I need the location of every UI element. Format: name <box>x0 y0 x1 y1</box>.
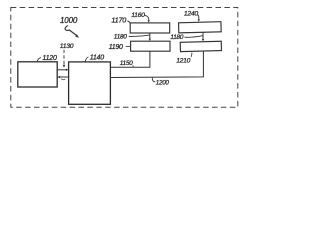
block 1170 (upper left of array) <box>130 23 170 33</box>
leader tick for 1150 <box>132 65 134 67</box>
svg-text:1210: 1210 <box>176 57 190 64</box>
svg-text:1120: 1120 <box>42 55 57 62</box>
leader for 1140 <box>85 57 88 62</box>
stray arc mark <box>61 78 66 81</box>
block 1190 (lower left of array) <box>131 41 170 51</box>
svg-text:1180: 1180 <box>114 34 128 41</box>
wire 1200 from lower-right block to 1140 <box>111 51 204 78</box>
leader for 1170 <box>127 21 130 23</box>
block 1140 <box>69 62 111 104</box>
arrow 1140 to 1120 <box>60 76 69 78</box>
svg-text:1200: 1200 <box>156 80 170 87</box>
dashed leader arrow for 1130 <box>63 50 65 65</box>
arrow 1120 to 1140 <box>57 69 66 71</box>
svg-text:1190: 1190 <box>109 44 123 51</box>
svg-text:1160: 1160 <box>131 12 145 19</box>
svg-text:1130: 1130 <box>60 43 74 50</box>
svg-text:1150: 1150 <box>120 60 133 67</box>
leader for right 1180 <box>184 36 202 38</box>
wire 1150 from lower-left block to 1140 <box>111 51 150 67</box>
svg-text:1170: 1170 <box>111 16 126 25</box>
block 1200 (lower right of array) <box>180 41 221 51</box>
svg-text:1000: 1000 <box>60 16 78 25</box>
dashed enclosure border 1100 <box>11 8 238 108</box>
arrow upper-right block to lower-right block <box>202 32 204 39</box>
leader for left 1180 <box>129 35 150 37</box>
leader arrow 1240 into upper-right block <box>197 15 199 17</box>
leader tick for 1210 <box>190 53 193 57</box>
leader for 1120 <box>37 58 41 62</box>
svg-text:1140: 1140 <box>90 54 105 61</box>
leader for 1190 <box>126 45 131 47</box>
leader hook for 1200 <box>152 78 155 82</box>
block 1240 (upper right of array) <box>179 22 222 33</box>
arrow upper-left block to lower-left block <box>149 33 151 39</box>
leader arrow 1160 into upper-left block <box>144 15 148 18</box>
block 1120 <box>18 62 57 87</box>
svg-text:1180: 1180 <box>170 34 184 41</box>
svg-text:1240: 1240 <box>184 10 198 17</box>
squiggle arrow for 1000 <box>65 25 77 35</box>
